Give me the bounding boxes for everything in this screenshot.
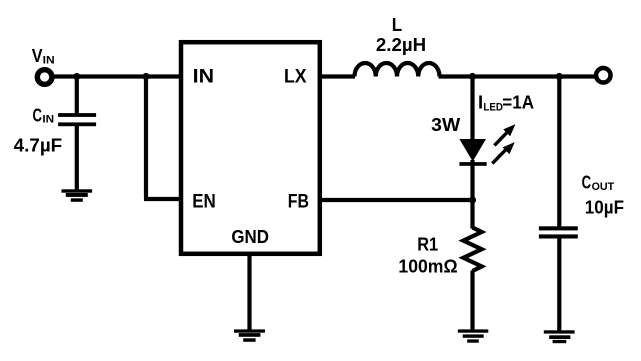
svg-text:=1A: =1A [502,91,534,112]
svg-text:IN: IN [193,67,214,88]
svg-text:GND: GND [231,226,269,247]
svg-text:3W: 3W [431,114,461,135]
svg-text:C: C [33,105,43,126]
svg-text:C: C [582,171,592,192]
svg-text:10µF: 10µF [585,196,624,217]
svg-text:2.2µH: 2.2µH [376,34,426,55]
svg-text:V: V [32,45,43,66]
svg-text:IN: IN [43,55,55,67]
svg-text:4.7µF: 4.7µF [14,134,63,155]
svg-text:100mΩ: 100mΩ [398,256,457,277]
svg-text:LX: LX [284,67,307,88]
svg-text:OUT: OUT [592,181,615,193]
svg-text:R1: R1 [417,233,438,254]
svg-text:IN: IN [42,114,54,126]
svg-text:EN: EN [192,192,216,213]
svg-text:L: L [392,14,402,35]
svg-text:I: I [478,91,483,112]
svg-text:FB: FB [288,192,309,213]
svg-text:LED: LED [483,102,503,114]
